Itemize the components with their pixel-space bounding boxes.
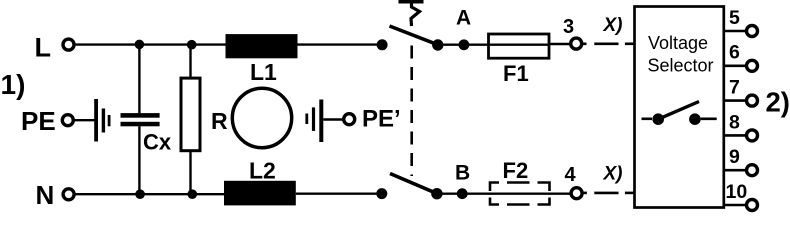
svg-text:9: 9 bbox=[729, 146, 740, 168]
svg-text:2): 2) bbox=[766, 87, 790, 118]
dashed wire terminal 3 to selector bbox=[583, 42, 635, 45]
wire switch through F2 to terminal 4 bbox=[437, 192, 570, 194]
svg-text:10: 10 bbox=[726, 181, 748, 203]
svg-text:1): 1) bbox=[1, 69, 26, 100]
svg-text:Cx: Cx bbox=[143, 130, 172, 155]
terminal 5 bbox=[724, 7, 758, 37]
wire L1 to switch bbox=[298, 43, 383, 45]
wire F1 to terminal 3 bbox=[549, 43, 570, 45]
node B dot bbox=[457, 188, 468, 199]
wire L2 to switch bbox=[296, 192, 382, 194]
svg-text:L2: L2 bbox=[249, 157, 276, 183]
svg-text:L: L bbox=[35, 32, 52, 62]
indicator lamp circle bbox=[232, 88, 291, 147]
terminal 3 bbox=[571, 38, 582, 49]
terminal 7 bbox=[724, 77, 758, 107]
selector switch right dot bbox=[689, 113, 701, 125]
switch S1 bottom blade bbox=[390, 174, 438, 194]
svg-text:6: 6 bbox=[729, 42, 740, 64]
selector switch left stub bbox=[642, 118, 653, 121]
terminal 6 bbox=[724, 42, 758, 72]
svg-text:4: 4 bbox=[565, 164, 577, 186]
svg-text:N: N bbox=[36, 180, 55, 210]
node junction N/R bbox=[188, 189, 198, 199]
terminal 9 bbox=[724, 146, 758, 176]
svg-text:A: A bbox=[456, 7, 471, 30]
svg-text:X): X) bbox=[603, 164, 623, 185]
resistor R bbox=[181, 45, 200, 195]
selector switch blade bbox=[658, 102, 699, 120]
ground symbol PE' (rotated earth, mirrored) bbox=[305, 100, 323, 143]
selector switch left dot bbox=[652, 113, 664, 125]
mechanical linkage dashed bbox=[410, 46, 413, 177]
svg-text:7: 7 bbox=[729, 77, 740, 99]
svg-text:Selector: Selector bbox=[648, 56, 714, 76]
capacitor Cx bbox=[121, 44, 160, 194]
ground symbol PE (rotated earth) bbox=[94, 99, 110, 142]
svg-text:R: R bbox=[211, 108, 228, 134]
switch S1 bottom contact dot bbox=[376, 188, 387, 199]
svg-text:8: 8 bbox=[729, 111, 740, 133]
terminal L bbox=[63, 39, 74, 50]
node junction L/Cx bbox=[135, 40, 145, 50]
wire PE to ground bbox=[75, 119, 95, 121]
svg-text:L1: L1 bbox=[250, 59, 277, 85]
svg-text:X): X) bbox=[603, 15, 623, 36]
node junction N/Cx bbox=[135, 189, 145, 199]
inductor L2 bbox=[224, 181, 296, 206]
svg-text:5: 5 bbox=[729, 7, 740, 29]
svg-text:Voltage: Voltage bbox=[648, 33, 708, 53]
dashed wire terminal 4 to selector bbox=[583, 192, 635, 195]
svg-text:PE’: PE’ bbox=[362, 105, 401, 132]
voltage selector box bbox=[635, 7, 724, 208]
terminal 8 bbox=[724, 111, 758, 141]
switch S1 bottom pivot dot bbox=[431, 188, 442, 199]
terminal N bbox=[63, 189, 74, 200]
inductor L1 bbox=[226, 34, 298, 58]
terminal PE bbox=[62, 115, 73, 126]
switch S1 top blade bbox=[390, 26, 439, 45]
switch S1 spring zigzag bbox=[411, 2, 420, 26]
selector switch right stub bbox=[701, 118, 717, 121]
switch S1 top contact dot bbox=[377, 39, 388, 50]
wire L to L1 bbox=[75, 43, 227, 45]
fuse F2 dashed bbox=[490, 183, 550, 205]
wire ground to PE' bbox=[323, 118, 343, 120]
node junction L/R bbox=[187, 40, 197, 50]
svg-text:F1: F1 bbox=[503, 61, 529, 86]
wire N to L2 bbox=[75, 193, 225, 195]
terminal 10 bbox=[724, 181, 758, 211]
fuse F1 bbox=[489, 34, 550, 58]
switch S1 actuator handle bbox=[399, 0, 424, 4]
svg-text:B: B bbox=[455, 162, 470, 185]
svg-text:PE: PE bbox=[21, 106, 56, 136]
terminal 4 bbox=[571, 188, 582, 199]
wire switch to F1 bbox=[438, 44, 489, 46]
terminal PE' bbox=[344, 114, 355, 125]
svg-text:3: 3 bbox=[563, 16, 574, 38]
svg-text:F2: F2 bbox=[503, 158, 529, 183]
switch S1 top pivot dot bbox=[432, 39, 443, 50]
node A dot bbox=[459, 39, 470, 50]
